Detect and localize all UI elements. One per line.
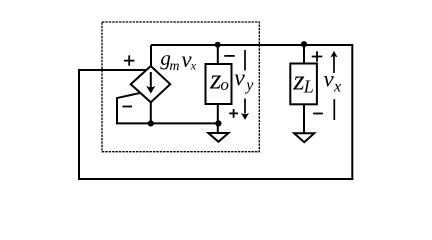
wire outer left vertical: [78, 69, 80, 179]
svg-text:y: y: [244, 77, 254, 94]
svg-text:L: L: [303, 76, 314, 96]
impedance Zo: [206, 64, 232, 104]
wire bottom node horizontal: [116, 122, 219, 124]
− label Zo top: [224, 55, 234, 57]
wire input left horizontal: [79, 69, 146, 71]
svg-text:x: x: [190, 59, 197, 73]
wire top horizontal: [151, 44, 352, 46]
label gm vx: [160, 46, 196, 74]
wire diamond top stub: [150, 45, 152, 67]
svg-text:x: x: [333, 79, 341, 96]
ground under Zo: [208, 133, 228, 142]
svg-text:v: v: [234, 66, 245, 92]
junction dot top (above Zo): [215, 42, 221, 48]
ground under ZL: [294, 133, 314, 142]
wire loop from diamond lower-left edge: [117, 93, 141, 124]
wire ZL top stub: [303, 44, 305, 64]
junction dot top (above ZL): [301, 41, 307, 47]
wire outer right vertical: [351, 44, 353, 180]
wire diamond bottom stub: [150, 102, 152, 123]
wire Zo bottom stub: [217, 104, 219, 133]
+ polarity source input: [124, 55, 135, 65]
voltage arrow v_x: [324, 51, 342, 120]
dashed box (model boundary): [102, 22, 259, 152]
wire ZL bottom stub: [303, 104, 305, 133]
voltage arrow v_y: [234, 50, 254, 120]
dependent current source gm*vx (diamond with down arrow): [131, 66, 171, 102]
− label ZL bottom: [313, 113, 323, 115]
junction dot bottom (below Zo): [215, 120, 221, 126]
− polarity source (inside loop): [123, 106, 133, 108]
svg-text:m: m: [169, 59, 179, 74]
+ label Zo bottom: [229, 109, 238, 118]
svg-text:v: v: [324, 67, 335, 92]
wire Zo top stub: [217, 45, 219, 64]
junction dot at diamond bottom: [148, 120, 154, 126]
impedance ZL: [290, 64, 317, 105]
svg-text:o: o: [220, 75, 229, 94]
+ label ZL top: [312, 51, 323, 62]
wire outer bottom horizontal: [78, 178, 353, 180]
